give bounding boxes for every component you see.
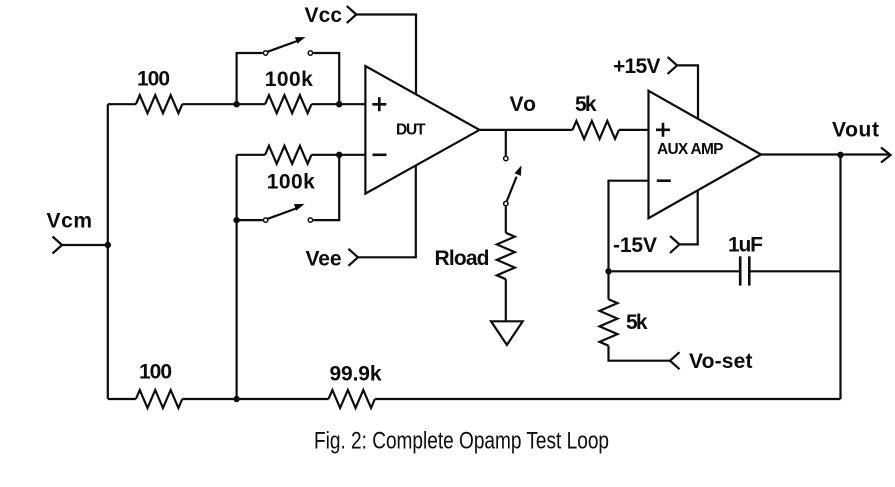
resistor 100k (lower) <box>265 146 311 164</box>
wire bottom right <box>375 398 841 400</box>
svg-text:+15V: +15V <box>613 55 661 78</box>
wire Vcm to left rail <box>62 244 108 246</box>
svg-text:100: 100 <box>137 67 170 90</box>
op-amp U1 DUT <box>365 66 479 194</box>
svg-text:AUX AMP: AUX AMP <box>657 141 724 158</box>
ground <box>491 321 523 345</box>
svg-text:Fig. 2: Complete Opamp Test Lo: Fig. 2: Complete Opamp Test Loop <box>314 428 609 455</box>
resistor 99.9k <box>329 390 375 408</box>
wire capacitor to Vout rail <box>750 270 840 272</box>
node D <box>336 152 342 158</box>
wire switch S1 right riser <box>313 53 339 104</box>
svg-text:DUT: DUT <box>396 121 426 138</box>
resistor 100 (top) <box>136 95 182 113</box>
port Vee <box>348 249 358 266</box>
switch S3 (load) <box>504 156 522 206</box>
wire 5k to AUX +input <box>619 129 649 131</box>
wire bottom left lead <box>108 398 136 400</box>
svg-text:5k: 5k <box>575 93 597 116</box>
node B <box>336 101 342 107</box>
arrow Vout <box>881 148 891 163</box>
svg-text:5k: 5k <box>626 311 648 334</box>
svg-text:1uF: 1uF <box>728 234 763 257</box>
svg-text:Vcm: Vcm <box>47 209 93 232</box>
port Vo-set <box>670 352 680 369</box>
svg-text:Rload: Rload <box>435 247 490 270</box>
port +15V <box>668 57 678 74</box>
svg-text:Vo: Vo <box>510 93 537 116</box>
wire switch S2 right riser <box>313 155 339 220</box>
wire lower-left riser <box>236 155 238 220</box>
svg-text:99.9k: 99.9k <box>330 362 382 385</box>
wire node E to 5k lower <box>607 271 609 299</box>
wire 100k to DUT +input <box>312 103 366 105</box>
wire +15V feed <box>677 65 698 119</box>
wire Rload to ground <box>505 279 507 321</box>
wire -15V feed <box>680 190 698 244</box>
wire Vout rail down <box>839 155 841 399</box>
wire switch S1 left riser <box>237 53 263 104</box>
svg-text:Vout: Vout <box>832 118 879 141</box>
capacitor C1 1uF <box>740 256 749 285</box>
switch S1 <box>263 37 312 55</box>
svg-text:100k: 100k <box>267 171 315 194</box>
wire Vcc feed <box>356 15 416 96</box>
resistor 5k (Vo-set) <box>600 299 618 345</box>
wire switch S2 left stub <box>237 219 263 221</box>
resistor 5k (series) <box>573 121 619 139</box>
node E feedback <box>605 268 611 274</box>
node C <box>233 217 239 223</box>
wire DUT output to 5k <box>480 129 573 131</box>
wire AUX -input to feedback node <box>609 181 649 272</box>
svg-text:Vcc: Vcc <box>305 4 343 27</box>
node F bottom junction <box>233 396 239 402</box>
wire left riser C to bottom <box>236 220 238 399</box>
node Vout junction <box>837 152 843 158</box>
wire Vee feed <box>358 165 416 257</box>
resistor 100k (top) <box>265 95 311 113</box>
wire +input chain left <box>108 103 136 105</box>
svg-text:-15V: -15V <box>613 234 657 257</box>
wire node E to capacitor <box>609 270 740 272</box>
switch S2 <box>263 204 312 222</box>
op-amp U2 AUX AMP <box>649 91 762 218</box>
wire switch S3 to Rload <box>505 207 507 233</box>
wire AUX output <box>761 153 889 155</box>
wire bottom middle <box>182 398 328 400</box>
svg-text:100: 100 <box>139 361 172 384</box>
wire Vo switch stub <box>505 130 507 156</box>
port Vcc <box>347 6 357 23</box>
wire 100 to node A <box>182 103 265 105</box>
resistor 100 (bottom) <box>136 390 182 408</box>
resistor Rload <box>497 233 515 279</box>
wire -input chain left lead <box>237 154 266 156</box>
svg-text:Vee: Vee <box>306 248 342 271</box>
port -15V <box>670 236 680 253</box>
svg-text:Vo-set: Vo-set <box>689 350 753 373</box>
wire 5k to Vo-set port <box>609 346 671 361</box>
node A <box>233 101 239 107</box>
wire left rail <box>107 104 109 399</box>
svg-text:100k: 100k <box>265 68 313 91</box>
node Vcm junction <box>105 242 111 248</box>
port Vcm <box>53 237 63 254</box>
wire 100k lower to DUT -input <box>312 154 366 156</box>
